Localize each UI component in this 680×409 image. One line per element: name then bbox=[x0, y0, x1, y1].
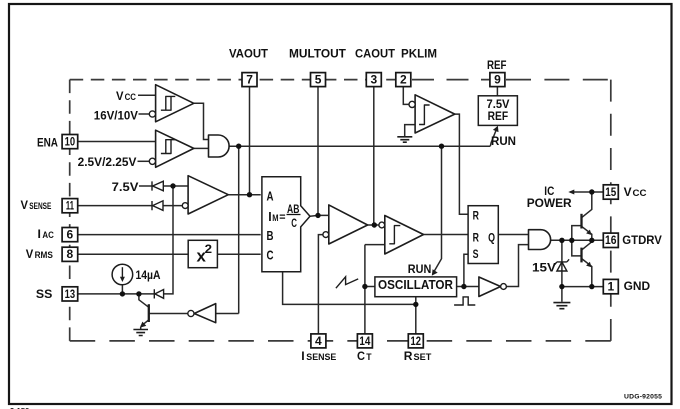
wire Q2 ground stem bbox=[140, 327, 142, 330]
wire D2 to U3 bubble bbox=[163, 205, 182, 207]
current source arrow bbox=[121, 267, 123, 278]
pin 16 GTDRV box bbox=[603, 233, 618, 247]
pin 13 SS box bbox=[62, 287, 78, 301]
comparator U5 PWM bbox=[385, 216, 424, 255]
inverter U7 soft-start bbox=[194, 304, 216, 323]
wire U5 output to flip-flop R input bbox=[424, 234, 469, 236]
svg-text:POWER: POWER bbox=[527, 196, 572, 210]
bubble U4 inverting input bbox=[323, 232, 329, 238]
svg-text:C: C bbox=[357, 349, 366, 363]
bubble U8 output bbox=[501, 284, 507, 290]
wire VSENSE pin11 to diode D2 bbox=[78, 205, 152, 207]
svg-text:14µA: 14µA bbox=[136, 269, 161, 282]
svg-text:SENSE: SENSE bbox=[306, 352, 336, 362]
hysteresis symbol U1 bbox=[161, 96, 175, 110]
junction 7.5V diode node bbox=[170, 183, 175, 188]
junction GND node bbox=[589, 284, 594, 289]
comparator U1 Vcc UVLO bbox=[156, 85, 194, 122]
op-amp U3 voltage amp bbox=[188, 176, 228, 214]
svg-text:16: 16 bbox=[605, 235, 616, 248]
wire VRMS pin8 to squarer bbox=[78, 253, 189, 255]
wire SS pin13 rail bbox=[78, 293, 155, 295]
svg-text:V: V bbox=[26, 247, 34, 261]
svg-text:7.5V: 7.5V bbox=[112, 180, 139, 194]
RUN arrowhead to oscillator bbox=[432, 269, 438, 275]
svg-text:REF: REF bbox=[488, 110, 509, 123]
bubble U3 inverting input bbox=[182, 203, 188, 209]
svg-text:CC: CC bbox=[125, 91, 136, 102]
svg-text:VAOUT: VAOUT bbox=[229, 46, 269, 61]
step symbol U5 bbox=[389, 226, 400, 244]
wire SS diode to 7.5V node bbox=[164, 186, 173, 294]
svg-text:R: R bbox=[404, 349, 413, 363]
IC boundary dashed box bbox=[70, 80, 611, 341]
svg-text:RUN: RUN bbox=[408, 263, 431, 276]
transistor Q2 emitter arrowhead bbox=[140, 322, 146, 328]
svg-text:S: S bbox=[473, 248, 479, 262]
svg-text:M: M bbox=[272, 212, 278, 223]
junction ENA AND output bbox=[236, 144, 241, 149]
pin 5 MULTOUT box bbox=[311, 73, 326, 87]
pin 9 REF box bbox=[490, 73, 505, 87]
wire RUN arrow to 7.5V REF bbox=[490, 130, 496, 147]
bubble U1 inverting input bbox=[149, 111, 155, 117]
junction GTDRV node bbox=[589, 238, 594, 243]
pin 6 IAC box bbox=[62, 228, 78, 242]
transistor Q3 base bar bbox=[580, 214, 582, 229]
svg-text:R: R bbox=[473, 231, 480, 245]
svg-text:MULTOUT: MULTOUT bbox=[289, 46, 347, 60]
svg-text:2: 2 bbox=[205, 241, 212, 255]
junction Q2 collector node bbox=[136, 291, 141, 296]
pin 10 ENA box bbox=[62, 135, 78, 149]
svg-text:5: 5 bbox=[315, 73, 322, 87]
svg-text:V: V bbox=[624, 185, 632, 199]
ground symbol power GND bbox=[553, 303, 570, 309]
wire ENA/RUN rail bbox=[229, 145, 490, 147]
pin 12 RSET box bbox=[408, 334, 423, 348]
svg-text:T: T bbox=[366, 352, 372, 362]
wire oscillator output to inverter U8 bbox=[457, 286, 479, 288]
squarer block X2 bbox=[188, 240, 217, 267]
wire U4 output to U5 bubble bbox=[368, 224, 379, 226]
wire Vcc rail pin15 bbox=[570, 191, 603, 193]
pulse waveform symbol bbox=[454, 297, 475, 305]
pin 4 ISENSE box bbox=[311, 334, 326, 348]
wire totem base tree bbox=[572, 226, 582, 256]
wire U7 input from ENA branch bbox=[216, 313, 239, 315]
svg-text:SS: SS bbox=[36, 287, 52, 301]
wire Q2 collector to SS rail bbox=[139, 294, 149, 307]
wire GND rail pin1 bbox=[562, 286, 603, 288]
svg-text:CAOUT: CAOUT bbox=[355, 47, 396, 61]
svg-text:16V/10V: 16V/10V bbox=[94, 108, 138, 122]
diode D1 7.5V clamp bbox=[152, 181, 163, 191]
wire Q4 collector bbox=[582, 240, 592, 249]
wire U2 output to AND gate A1 bbox=[194, 147, 209, 149]
oscillator block bbox=[375, 277, 457, 297]
svg-text:SENSE: SENSE bbox=[29, 201, 51, 211]
wire Q output to AND gate A2 bbox=[498, 234, 528, 236]
junction oscillator output node bbox=[461, 284, 466, 289]
wire Q4 emitter bbox=[582, 259, 592, 287]
wire MULTOUT pin5 vertical bbox=[317, 87, 319, 216]
bubble U6 inverting input bbox=[409, 101, 415, 107]
svg-text:SET: SET bbox=[414, 352, 432, 362]
step symbol U6 bbox=[419, 105, 430, 125]
sawtooth waveform symbol bbox=[336, 277, 358, 288]
transistor Q4 emitter arrowhead bbox=[586, 262, 591, 267]
AND gate A1 bbox=[209, 135, 230, 157]
IC POWER arrowhead bbox=[568, 190, 574, 195]
AND gate A2 gate drive bbox=[529, 230, 551, 250]
comparator U2 ENA bbox=[156, 130, 194, 167]
wire 16V/10V to U1 bubble bbox=[139, 113, 150, 115]
svg-text:C: C bbox=[291, 217, 297, 230]
junction RSET node bbox=[413, 302, 418, 307]
svg-text:I: I bbox=[38, 227, 41, 241]
wire Q3 emitter bbox=[582, 227, 592, 241]
wire RSET pin12 vertical to oscillator bbox=[415, 297, 417, 334]
svg-text:8: 8 bbox=[67, 247, 74, 261]
transistor Q2 base bar bbox=[148, 304, 150, 322]
svg-text:15V: 15V bbox=[532, 260, 556, 274]
wire GTDRV rail bbox=[551, 239, 604, 241]
wire CT node to oscillator input bbox=[365, 286, 375, 288]
wire PKLIM pin2 to U6 bubble bbox=[403, 87, 409, 105]
wire U6 output to flip-flop R input bbox=[455, 114, 468, 214]
junction IM output node bbox=[315, 213, 320, 218]
bubble U7 output bbox=[188, 310, 194, 316]
wire multiplier IM output to amp U4 bbox=[310, 214, 329, 217]
svg-text:10: 10 bbox=[65, 135, 75, 148]
junction zener top node bbox=[559, 238, 564, 243]
svg-text:A: A bbox=[267, 190, 275, 204]
current source arrowhead bbox=[120, 277, 125, 282]
svg-text:B: B bbox=[267, 230, 274, 244]
svg-text:R: R bbox=[473, 209, 480, 223]
pin 2 PKLIM box bbox=[396, 73, 411, 87]
junction CT node bbox=[362, 284, 367, 289]
wire GND symbol stem bbox=[561, 287, 563, 302]
RS flip-flop block bbox=[468, 206, 498, 264]
bubble U5 noninverting input bbox=[379, 222, 385, 228]
svg-text:I: I bbox=[268, 210, 271, 224]
pin 14 CT box bbox=[357, 334, 372, 348]
wire CT pin14 vertical bbox=[364, 245, 366, 334]
pin 11 VSENSE box bbox=[62, 199, 78, 213]
wire IAC pin6 to multiplier B input bbox=[78, 234, 261, 236]
wire U7 output to Q2 base bbox=[149, 313, 188, 315]
svg-text:7.5V: 7.5V bbox=[487, 99, 510, 111]
svg-text:2.5V/2.25V: 2.5V/2.25V bbox=[78, 155, 137, 169]
svg-text:4: 4 bbox=[315, 334, 322, 348]
junction zener bottom node bbox=[559, 284, 564, 289]
svg-text:PKLIM: PKLIM bbox=[401, 46, 437, 60]
current source I1 14uA bbox=[112, 264, 133, 285]
wire squarer to multiplier C input bbox=[217, 253, 260, 255]
wire Vcc label to comparator U1 bbox=[138, 94, 156, 96]
pin 3 CAOUT box bbox=[366, 73, 381, 87]
wire multiplier bottom to RSET node bbox=[283, 272, 416, 305]
hysteresis symbol U2 bbox=[161, 140, 175, 154]
bubble U2 inverting input bbox=[149, 158, 155, 164]
wire 2.5V/2.25V to U2 bubble bbox=[138, 160, 150, 162]
wire oscillator output branch to S input bbox=[464, 254, 468, 286]
wire 7.5V label to diode D1 bbox=[139, 185, 152, 187]
svg-text:=: = bbox=[279, 211, 285, 223]
wire VAOUT pin7 vertical bbox=[249, 87, 251, 195]
svg-text:C: C bbox=[267, 249, 275, 263]
wire zener branch bbox=[561, 240, 563, 286]
svg-text:GND: GND bbox=[624, 279, 651, 293]
svg-text:6: 6 bbox=[67, 228, 74, 242]
junction VAOUT node bbox=[247, 192, 252, 197]
transistor Q4 base bar bbox=[580, 248, 582, 263]
junction base tree node bbox=[569, 238, 574, 243]
pin 1 GND box bbox=[603, 279, 618, 293]
wire Q3 collector bbox=[582, 192, 592, 217]
wire ENA vertical branch to inverter U7 bbox=[238, 146, 240, 313]
wire U1 output to AND gate A1 bbox=[194, 103, 209, 139]
svg-text:13: 13 bbox=[65, 288, 75, 301]
wire ENA pin10 to comparator U2 bbox=[78, 141, 156, 143]
RUN arrowhead to REF block bbox=[493, 126, 499, 132]
7.5V REF block bbox=[478, 96, 517, 126]
wire REF pin9 to 7.5V REF block bbox=[496, 87, 498, 96]
svg-text:AC: AC bbox=[42, 229, 54, 240]
svg-text:RMS: RMS bbox=[35, 249, 53, 260]
wire U3 output to multiplier A input bbox=[228, 194, 260, 196]
pin 8 VRMS box bbox=[62, 247, 78, 261]
comparator U6 PKLIM bbox=[415, 95, 455, 133]
op-amp U4 current amp bbox=[329, 205, 368, 244]
multiplier fraction bar bbox=[287, 214, 301, 216]
svg-text:1: 1 bbox=[607, 280, 614, 294]
wire Q2 emitter bbox=[141, 320, 149, 326]
svg-text:REF: REF bbox=[487, 59, 507, 72]
svg-text:I: I bbox=[301, 349, 304, 363]
svg-text:12: 12 bbox=[411, 335, 421, 348]
junction Vcc node bbox=[589, 189, 594, 194]
svg-text:UDG-92055: UDG-92055 bbox=[624, 394, 662, 401]
svg-text:CC: CC bbox=[633, 188, 647, 199]
svg-text:11: 11 bbox=[66, 200, 74, 213]
ground symbol U6 input bbox=[397, 137, 412, 142]
zener diode D4 15V bbox=[555, 259, 569, 271]
transistor Q3 emitter arrowhead bbox=[586, 230, 591, 235]
svg-text:15: 15 bbox=[605, 186, 616, 199]
junction CAOUT node bbox=[372, 222, 377, 227]
svg-text:9: 9 bbox=[494, 73, 501, 87]
diode D3 soft start clamp bbox=[154, 289, 163, 298]
svg-text:RUN: RUN bbox=[491, 134, 516, 148]
svg-text:2: 2 bbox=[400, 73, 407, 87]
wire CT ramp to PWM comparator U5 bbox=[365, 244, 385, 246]
svg-text:OSCILLATOR: OSCILLATOR bbox=[378, 278, 453, 293]
wire RUN branch to oscillator bbox=[434, 146, 442, 272]
ground symbol Q2 emitter bbox=[133, 330, 148, 336]
svg-text:3: 3 bbox=[371, 73, 378, 87]
svg-text:7: 7 bbox=[246, 73, 253, 87]
svg-text:V: V bbox=[21, 199, 29, 213]
svg-text:Q: Q bbox=[488, 231, 495, 245]
inverter U8 oscillator blanking bbox=[479, 277, 501, 297]
pin 7 VAOUT box bbox=[242, 73, 257, 87]
junction RUN branch bbox=[439, 144, 444, 149]
wire ISENSE pin4 vertical to U4 inverting input bbox=[318, 235, 322, 334]
multiplier block M1 bbox=[262, 177, 310, 272]
svg-text:GTDRV: GTDRV bbox=[622, 233, 662, 248]
svg-text:V: V bbox=[116, 90, 124, 104]
wire current source stem bbox=[121, 285, 123, 294]
pin 15 VCC box bbox=[603, 185, 618, 199]
svg-text:ENA: ENA bbox=[37, 137, 58, 150]
diode D2 VSENSE bbox=[152, 201, 163, 211]
svg-text:14: 14 bbox=[359, 335, 371, 348]
wire U8 output to AND gate A2 bbox=[506, 245, 528, 287]
wire U6 inverting input to ground bbox=[405, 125, 415, 137]
wire D1 to voltage amp U3 bbox=[163, 185, 188, 187]
junction 14uA source node bbox=[120, 291, 125, 296]
wire CAOUT pin3 vertical bbox=[373, 87, 375, 225]
